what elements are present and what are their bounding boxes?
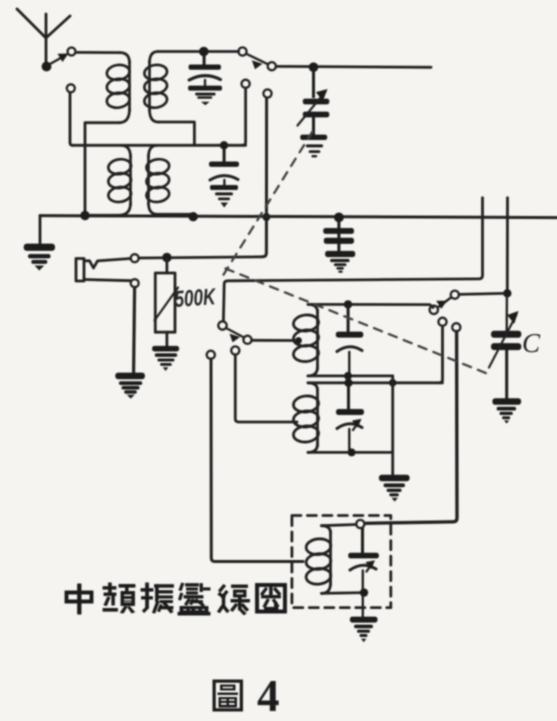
node dot C5 bottom [348, 448, 356, 456]
switch SW3 contact 2 [242, 80, 250, 88]
wire osc A bottom edge [308, 374, 393, 377]
wire osc A top edge [308, 304, 433, 307]
terminal wire x507 [506, 198, 509, 290]
ground G2 jack [115, 373, 145, 399]
IF oscillator coil L2 [305, 526, 331, 594]
jack J1 sleeve terminal circle [131, 279, 139, 287]
wire grid line y67 [276, 65, 431, 69]
arrow of C6 [367, 565, 372, 572]
switch SW4 contact 3 [452, 323, 460, 331]
dashed gang line D1 [221, 132, 313, 280]
terminal circle L2 top [356, 520, 364, 528]
wire SW2c3 to IF coil [211, 359, 303, 562]
antenna [17, 9, 70, 63]
capacitor Cg1 [189, 54, 221, 70]
switch SW2 contact 1 [243, 336, 251, 344]
variable capacitor C plates [491, 331, 521, 399]
transformer T1 secondary winding [143, 52, 168, 123]
wire SW4c1 to C node [459, 293, 503, 294]
wire band line y145 [72, 144, 246, 147]
node dot C5 top [344, 379, 352, 387]
IF oscillator shield box (dashed) [292, 516, 391, 608]
wire jack sleeve to ground [134, 287, 135, 372]
node dot bus x85 [80, 211, 89, 220]
node dot bus x193 [189, 212, 198, 221]
switch SW1 contact a [68, 48, 76, 56]
wire SW2c2 to osc B [235, 355, 297, 422]
wire L2 top edge [322, 525, 357, 526]
terminal wire x482 [223, 198, 482, 321]
ground G6 under C [492, 398, 521, 423]
switch SW1 arm [50, 54, 69, 65]
ground G7 under C6 [350, 617, 378, 643]
glyph 頻 [103, 583, 135, 613]
switch SW4 contact 2 [438, 318, 446, 326]
arrow of C [489, 311, 519, 368]
svg-text:500K: 500K [174, 283, 218, 312]
transformer T1 primary winding [106, 53, 131, 123]
switch SW4 arm [436, 298, 451, 309]
glyph 中 [65, 584, 93, 614]
jack J1 sleeve contact [84, 280, 131, 281]
jack J1 tip contact [84, 259, 131, 269]
node dot x507 [503, 289, 511, 297]
switch SW2 arm [226, 328, 244, 342]
wire osc B top edge [308, 381, 443, 384]
wire L2 bottom edge [322, 591, 365, 595]
wire SW1a to T1 primary [76, 51, 120, 54]
node dot trimmer top [220, 141, 228, 149]
wire T1 secondary bottom lead [158, 122, 194, 145]
ground G3 pot [152, 346, 179, 371]
wire T1 secondary top lead [158, 50, 239, 53]
oscillator coil winding B [293, 383, 320, 453]
switch SW2 contact 2 [231, 346, 239, 354]
switch SW4 contact 1 [451, 291, 459, 299]
node grid dot T1 [199, 47, 209, 57]
node dot C4 bottom [344, 372, 352, 380]
transformer T2 primary winding [85, 145, 132, 215]
wire SW4c2 down to osc common [439, 326, 442, 383]
svg-text:C: C [522, 328, 541, 358]
switch SW3 contact 1 [268, 62, 276, 70]
wire T1 primary bottom to bus [85, 123, 120, 214]
switch SW2 pivot [218, 321, 226, 329]
wire osc B bottom edge [308, 451, 393, 454]
wire SW3c2 to trimmer line [243, 88, 246, 145]
trimmer capacitor C2 [209, 147, 239, 167]
switch SW4 pivot [430, 306, 438, 314]
transformer T2 secondary winding [145, 145, 193, 216]
glyph 線 [218, 585, 250, 615]
node dot C1 top [309, 62, 319, 72]
wire ground bus [40, 216, 557, 218]
potentiometer R1 bottom stub [165, 332, 168, 347]
glyph 盪 [178, 583, 210, 615]
bypass capacitor C3 on bus [323, 220, 354, 252]
wire SW2c1 to osc A [252, 339, 297, 342]
potentiometer R1 top stub [165, 259, 168, 273]
node dot AVC on bus [262, 213, 270, 221]
potentiometer R1 body [155, 273, 175, 332]
label 圖 (figure caption) [213, 680, 244, 712]
switch SW1 contact b [67, 84, 75, 92]
wire SW1b down to wave-band line [70, 92, 73, 145]
oscillator coil winding A [293, 304, 320, 376]
switch SW2 contact 3 [207, 351, 215, 359]
node antenna junction [42, 62, 52, 72]
wire SW3c3 AVC vertical [263, 98, 267, 257]
switch SW3 pivot [238, 47, 246, 55]
wire SW4c3 down to IF coil [366, 332, 457, 524]
capacitor C6 [348, 528, 379, 558]
potentiometer R1 wiper slash [155, 288, 179, 321]
node dot C4 top [344, 300, 352, 308]
ground under C2 [210, 185, 238, 208]
node dot bus x339 [334, 213, 344, 223]
dashed gang line D2 [226, 269, 490, 375]
ground G5 osc [379, 475, 410, 502]
wire bus left drop [39, 216, 42, 245]
switch SW3 arm [246, 54, 267, 70]
arrow of C1 [298, 89, 328, 126]
node dot osc A left [295, 337, 302, 344]
variable capacitor C1 [303, 70, 330, 135]
node dot osc common [389, 379, 397, 387]
variable capacitor C stub [506, 298, 509, 332]
switch SW3 contact 3 [263, 89, 271, 97]
label 中頻振盪線圈 (hand-drawn glyphs) [65, 583, 287, 615]
jack J1 plug body [76, 259, 84, 282]
ground under C3 [325, 251, 355, 273]
wire volume line y258 [139, 257, 263, 258]
node dot pot top [162, 253, 171, 262]
ground under C1 [300, 135, 327, 158]
capacitor C4 [336, 307, 364, 338]
node dot C6 bottom [360, 588, 368, 596]
arrow of C5 [353, 424, 358, 431]
svg-text:4: 4 [257, 671, 280, 721]
glyph 圈 [256, 584, 287, 614]
ground under Cg1 [188, 86, 222, 106]
glyph 振 [141, 583, 174, 613]
jack J1 tip terminal circle [131, 254, 139, 262]
wire osc right vertical to ground [391, 376, 394, 475]
capacitor C5 [336, 385, 364, 415]
ground G1 bus left [24, 244, 55, 271]
